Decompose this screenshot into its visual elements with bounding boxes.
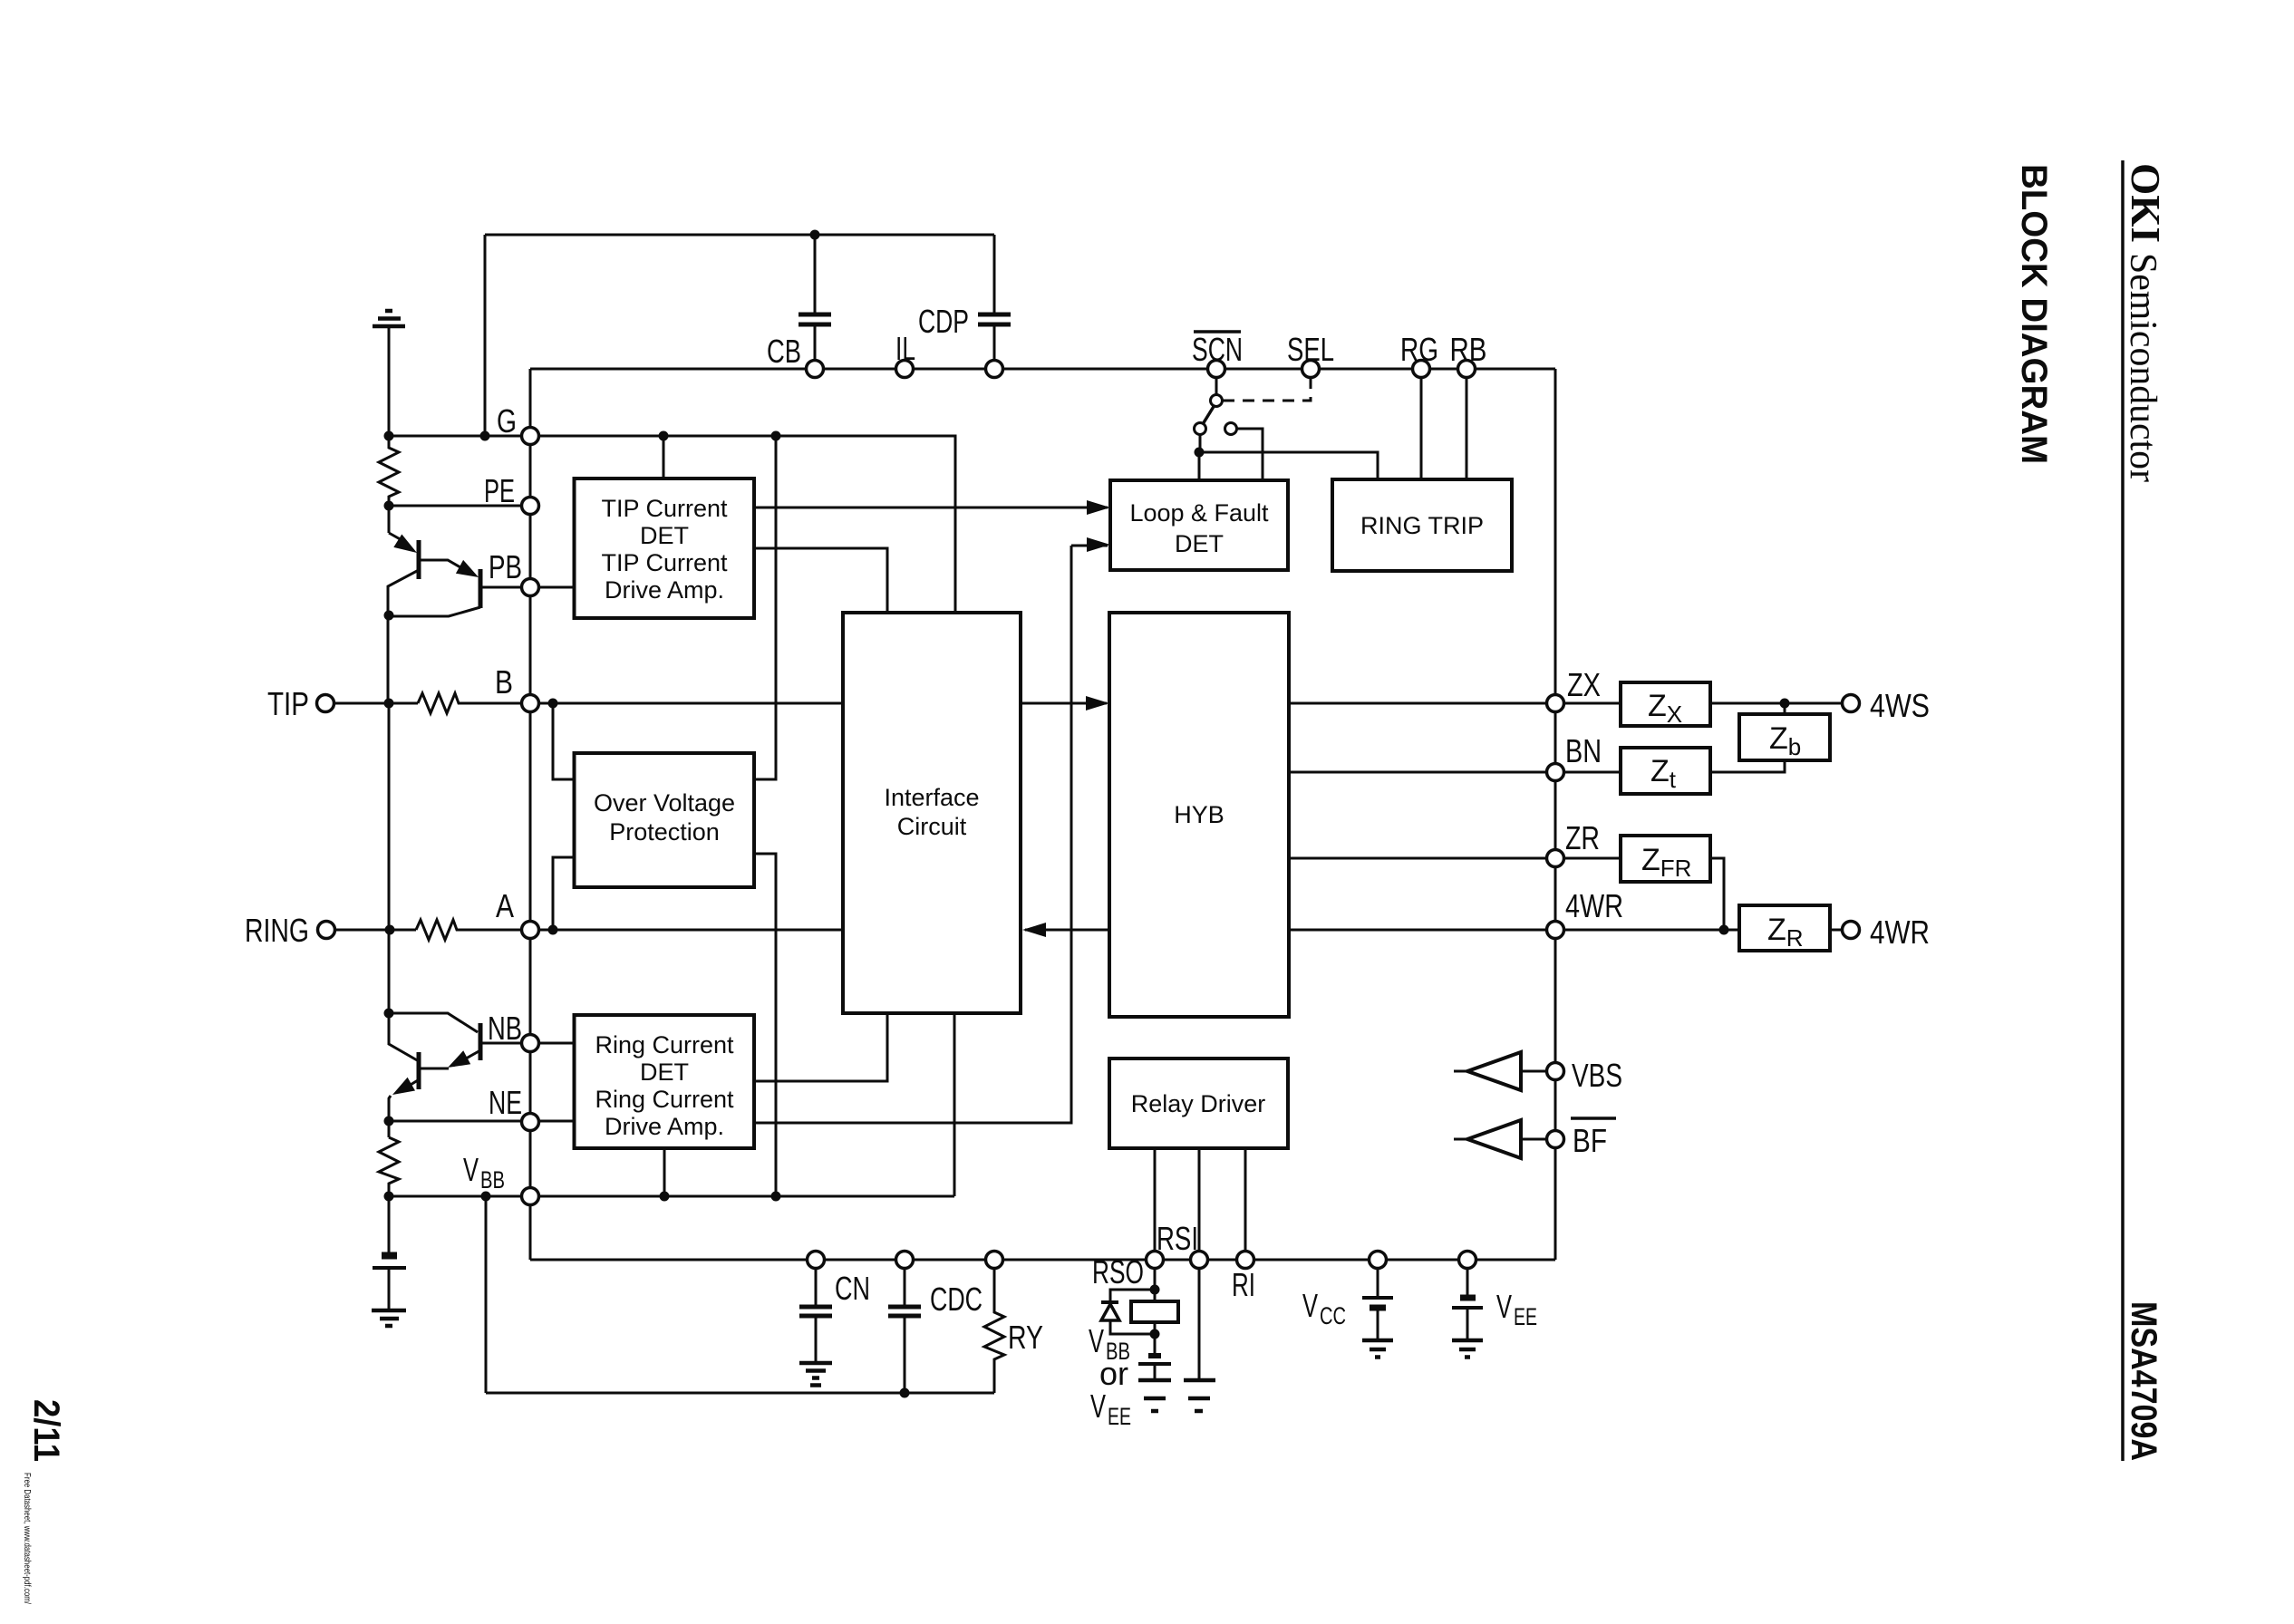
svg-text:Zt: Zt [1650, 754, 1677, 793]
terminal BN [1547, 764, 1564, 781]
ground (below RSI) [1184, 1380, 1215, 1411]
svg-text:TIP Current: TIP Current [601, 495, 728, 522]
svg-text:ZFR: ZFR [1641, 843, 1691, 882]
svg-text:A: A [496, 887, 514, 924]
terminal SCN [1208, 361, 1225, 378]
wire: B node to OVP [553, 703, 575, 779]
terminal VCC [1370, 1252, 1387, 1269]
svg-text:BB: BB [480, 1166, 505, 1194]
junction dot switch pole [1195, 448, 1205, 458]
svg-text:Relay Driver: Relay Driver [1131, 1090, 1266, 1117]
terminal RSO [1147, 1252, 1164, 1269]
wire: Ring block bottom riser to VBB rail [663, 1148, 666, 1196]
wire: relay driver output RSO [1154, 1148, 1157, 1301]
junction dot NE row [384, 1116, 394, 1126]
terminal RING [318, 922, 335, 939]
terminal RI [1237, 1252, 1254, 1269]
capacitor CN [815, 1260, 818, 1363]
svg-text:VBS: VBS [1572, 1057, 1622, 1094]
wire: RSI to ground [1198, 1260, 1201, 1380]
wire: NE row [390, 1120, 575, 1123]
wire: Ring block output riser to Loop & Fault lower [754, 546, 1108, 1123]
svg-text:EE: EE [1514, 1303, 1537, 1330]
wire: OVP lower right to VBB rail [754, 854, 776, 1196]
svg-text:RING TRIP: RING TRIP [1360, 512, 1484, 539]
terminal CDP [986, 361, 1003, 378]
junction dot VBB / OVP riser [771, 1192, 781, 1202]
wire: relay driver output RI [1244, 1148, 1247, 1260]
terminal ZX [1547, 695, 1564, 712]
wire: ZR box to 4WR terminal [1830, 929, 1851, 932]
wire: relay coil to battery [1154, 1322, 1157, 1354]
wire: ZFR output down to 4WR node [1710, 858, 1724, 930]
svg-text:ZX: ZX [1648, 689, 1682, 728]
svg-text:Protection: Protection [609, 818, 720, 846]
svg-text:PB: PB [489, 548, 522, 585]
wire: switch pole to Loop & Fault DET [1198, 452, 1201, 480]
svg-text:4WS: 4WS [1870, 687, 1930, 724]
wire: VBB row [390, 1195, 954, 1198]
wire: Zt output to Zb bottom [1710, 760, 1785, 772]
wire: bottom return rail [486, 1392, 994, 1395]
svg-text:Semiconductor: Semiconductor [2122, 253, 2163, 482]
svg-text:V: V [1302, 1287, 1318, 1324]
wire: VBB drop to bottom return [485, 1196, 488, 1393]
wire: RING row with resistor R3 [335, 929, 416, 932]
ground (below battery B2) [1138, 1380, 1171, 1411]
svg-text:NE: NE [489, 1084, 522, 1121]
junction dot G rail corner [480, 431, 490, 441]
ground (top left, inverted) [373, 311, 405, 326]
terminal IL [896, 361, 914, 378]
junction dot CDC / bottom return [900, 1388, 910, 1398]
ground (below battery B1) [372, 1310, 406, 1326]
svg-text:ZR: ZR [1565, 819, 1600, 856]
junction dot A node branch [548, 925, 558, 935]
transistor Q4 collector [389, 1013, 478, 1032]
junction dot Q1/Q2 collectors [384, 611, 394, 621]
svg-text:PE: PE [484, 472, 515, 509]
battery VEE [1466, 1260, 1469, 1296]
wire: HYB to Interface (A path) [1025, 929, 1109, 932]
block: TIP Current DET / Drive Amp [575, 478, 755, 618]
transistor Q1 (PNP) base bar [417, 540, 421, 579]
block: Ring Current DET / Drive Amp [575, 1015, 755, 1148]
wire: RB riser [1466, 369, 1468, 479]
battery B1 (VBB supply) [382, 1252, 397, 1260]
terminal A [522, 922, 539, 939]
svg-text:CC: CC [1320, 1302, 1346, 1329]
terminal BF [1547, 1131, 1564, 1148]
junction dot VBB / bottom return [481, 1192, 491, 1202]
svg-text:TIP Current: TIP Current [601, 549, 728, 576]
impedance box ZX [1621, 682, 1710, 726]
terminal VEE [1459, 1252, 1476, 1269]
junction dot 4WR / ZFR [1719, 925, 1729, 935]
junction dot G rail / TIP block riser [659, 431, 669, 441]
ground (below VCC) [1362, 1340, 1393, 1358]
wire: PE row [389, 505, 530, 507]
svg-text:RY: RY [1008, 1319, 1043, 1356]
svg-text:Circuit: Circuit [897, 813, 967, 840]
wire: RG riser [1420, 369, 1423, 479]
impedance box ZFR [1621, 836, 1710, 882]
svg-text:DET: DET [640, 1058, 689, 1086]
block: Interface Circuit [843, 613, 1021, 1013]
svg-text:V: V [1089, 1322, 1104, 1359]
transistor Q4 (NPN) base bar [479, 1023, 483, 1060]
block: Relay Driver [1109, 1058, 1288, 1148]
wire: switch throw 2 to Loop & Fault DET [1236, 429, 1263, 480]
capacitor CB [814, 235, 817, 369]
transistor Q1 collector [388, 570, 419, 703]
terminal PB [522, 579, 539, 596]
switch contact b [1195, 423, 1206, 435]
svg-text:RSO: RSO [1092, 1253, 1144, 1290]
wire: G terminal riser [529, 369, 532, 436]
wire: G rail [389, 436, 955, 613]
svg-text:2/11: 2/11 [26, 1399, 66, 1462]
transistor Q2 collector [389, 607, 480, 616]
terminal 4WR external [1843, 922, 1860, 939]
switch contact a [1211, 395, 1223, 407]
svg-text:V: V [1090, 1387, 1106, 1425]
terminal RB [1458, 361, 1476, 378]
svg-text:4WR: 4WR [1870, 913, 1930, 951]
wire: main vertical pin column [529, 436, 532, 1260]
svg-text:TIP: TIP [267, 685, 309, 722]
terminal NE [522, 1114, 539, 1131]
block: HYB [1109, 613, 1289, 1017]
wire: TIP block top riser from G rail [663, 436, 665, 478]
terminal NB [522, 1035, 539, 1052]
svg-text:DET: DET [1175, 530, 1224, 557]
wire: ZX box to 4WS terminal [1710, 702, 1851, 705]
terminal PE [522, 498, 539, 515]
transistor Q1 emitter with arrow [389, 533, 403, 541]
wire: HYB output 4WR row [1289, 929, 1739, 932]
terminal CB [807, 361, 824, 378]
wire: PB row [482, 586, 575, 589]
terminal CN [808, 1252, 825, 1269]
arrow into Loop & Fault upper [1087, 500, 1110, 515]
terminal G [522, 428, 539, 445]
block: Loop & Fault DET [1110, 480, 1288, 570]
wire: dashed link to SEL [1223, 378, 1311, 401]
svg-text:CN: CN [835, 1270, 870, 1307]
terminal 4WR pin [1547, 922, 1564, 939]
terminal RSI [1191, 1252, 1208, 1269]
junction dot TIP row [384, 699, 394, 709]
buffer amp VBS [1454, 1070, 1555, 1073]
svg-text:BF: BF [1573, 1122, 1607, 1159]
transistor Q3 collector [389, 1013, 419, 1061]
arrow into Loop & Fault lower [1087, 537, 1110, 552]
svg-text:G: G [497, 402, 517, 440]
svg-text:Drive Amp.: Drive Amp. [605, 576, 724, 604]
terminal B [522, 695, 539, 712]
wire: TIP block lower output to Interface top [754, 548, 887, 613]
ground (below CN) [799, 1363, 832, 1386]
junction dot PE row [384, 501, 394, 511]
svg-text:IL: IL [895, 330, 915, 367]
arrow into HYB [1086, 696, 1109, 710]
svg-text:or: or [1099, 1355, 1128, 1392]
resistor R1 (TIP bias, vertical) [379, 436, 399, 533]
svg-text:RG: RG [1400, 331, 1438, 368]
wire: main top terminal rail [530, 368, 1555, 371]
wire: OVP upper right to G rail [754, 436, 776, 779]
svg-text:V: V [463, 1151, 479, 1188]
svg-text:NB: NB [488, 1010, 522, 1047]
svg-text:Zb: Zb [1769, 721, 1801, 760]
svg-text:SCN: SCN [1192, 331, 1243, 368]
junction dot top wire / CB [810, 230, 820, 240]
svg-text:SEL: SEL [1287, 331, 1334, 368]
terminal RY [986, 1252, 1003, 1269]
svg-text:B: B [495, 663, 513, 701]
wire: Ring block upper output to Interface bottom [754, 1013, 887, 1081]
svg-text:BLOCK DIAGRAM: BLOCK DIAGRAM [2014, 164, 2054, 464]
svg-text:4WR: 4WR [1565, 887, 1623, 924]
wire: relay driver output RSI [1198, 1148, 1201, 1260]
terminal TIP [317, 695, 334, 712]
transistor Q3 emitter with arrow [389, 1080, 418, 1137]
relay coil K1 [1131, 1301, 1178, 1322]
diode D1 (relay clamp) [1110, 1290, 1155, 1334]
resistor R2 (TIP series) [418, 693, 843, 713]
wire: TIP block upper output to Loop & Fault [754, 507, 1108, 509]
svg-text:V: V [1496, 1288, 1512, 1325]
svg-text:OKI: OKI [2123, 163, 2169, 243]
terminal CDC [896, 1252, 914, 1269]
junction dot ground / G rail [384, 431, 394, 441]
svg-text:ZX: ZX [1567, 666, 1601, 703]
svg-text:MSA4709A: MSA4709A [2124, 1301, 2163, 1461]
wire: right vertical rail [1554, 369, 1557, 1260]
junction dot B node branch [548, 699, 558, 709]
svg-text:Ring Current: Ring Current [595, 1031, 734, 1058]
junction dot VBB / ring block riser [660, 1192, 670, 1202]
junction dot RSO / diode bottom [1150, 1329, 1160, 1339]
block: RING TRIP [1332, 479, 1512, 571]
wire: left corner down to G node [484, 235, 487, 436]
wire: Zb top stub [1784, 703, 1786, 714]
impedance box Zt [1621, 748, 1710, 794]
terminal 4WS external [1843, 695, 1860, 712]
svg-text:RB: RB [1450, 331, 1487, 368]
wire: HYB output ZX row [1289, 702, 1621, 705]
terminal ZR [1547, 850, 1564, 867]
wire: HYB output BN row [1289, 771, 1621, 774]
junction dot G rail / OVP riser [771, 431, 781, 441]
margin rule (right) [2121, 160, 2125, 1461]
svg-text:DET: DET [640, 522, 689, 549]
wire: switch pole to RING TRIP [1199, 452, 1378, 479]
wire: A node to OVP [553, 857, 575, 930]
ground (below VEE) [1452, 1340, 1483, 1358]
arrow into Interface [1022, 923, 1046, 937]
wire: HYB output ZR row [1289, 857, 1621, 860]
switch SCN blade [1215, 369, 1218, 395]
terminal VBB [522, 1188, 539, 1205]
switch contact c [1225, 423, 1237, 435]
svg-text:RSI: RSI [1157, 1220, 1198, 1257]
svg-text:RI: RI [1232, 1266, 1255, 1303]
terminal SEL [1302, 361, 1320, 378]
wire: bottom terminal rail [530, 1259, 1555, 1261]
capacitor CDC [904, 1260, 906, 1393]
block: Over Voltage Protection [575, 753, 755, 887]
impedance box Zb [1739, 714, 1830, 760]
svg-text:ZR: ZR [1767, 913, 1804, 952]
resistor R4 (RING bias, vertical) [379, 1137, 399, 1254]
transistor Q2 (PNP) base bar [479, 569, 483, 608]
transistor Q2 emitter from Q1 with arrow [421, 560, 471, 574]
svg-text:HYB: HYB [1174, 801, 1224, 828]
junction dot RING row [385, 925, 395, 935]
svg-text:Ring Current: Ring Current [595, 1086, 734, 1113]
transistor Q4 emitter to Q3 with arrow [421, 1050, 480, 1068]
svg-text:BN: BN [1565, 732, 1602, 769]
wire: Interface to HYB (B path) [1021, 702, 1107, 705]
resistor RY [984, 1260, 1004, 1393]
transistor Q3 (NPN) base bar [417, 1052, 421, 1089]
junction dot RSO / diode top [1150, 1285, 1160, 1295]
svg-text:Loop & Fault: Loop & Fault [1129, 499, 1269, 527]
terminal RG [1413, 361, 1430, 378]
svg-text:Free Datasheet, www.datasheet-: Free Datasheet, www.datasheet-pdf.com/ [22, 1473, 32, 1604]
svg-text:Drive Amp.: Drive Amp. [605, 1113, 724, 1140]
svg-text:CDC: CDC [930, 1281, 982, 1318]
wire: NB row [482, 1042, 575, 1045]
junction dot 4WS / Zb [1780, 699, 1790, 709]
impedance box ZR [1739, 905, 1830, 951]
junction dot VBB row left [384, 1192, 394, 1202]
wire: top loop wire CB/CDP [485, 234, 994, 237]
capacitor CDP [993, 235, 996, 369]
svg-text:Over Voltage: Over Voltage [594, 789, 735, 817]
resistor R3 (RING series) [416, 920, 843, 940]
wire: TIP row with resistor R2 [334, 702, 418, 705]
svg-text:CB: CB [767, 333, 801, 370]
battery B2 (VBB or VEE) [1148, 1353, 1161, 1358]
svg-text:Interface: Interface [884, 784, 979, 811]
battery VCC [1377, 1260, 1379, 1296]
svg-text:RING: RING [245, 912, 309, 949]
buffer amp BF [1454, 1138, 1555, 1141]
svg-text:EE: EE [1108, 1403, 1131, 1430]
wire: VBB riser to Interface bottom [953, 1013, 956, 1196]
wire: left vertical between TIP and RING rows [388, 703, 391, 1013]
terminal VBS [1547, 1063, 1564, 1080]
junction dot Q4 collector [384, 1009, 394, 1019]
svg-text:CDP: CDP [918, 303, 969, 340]
